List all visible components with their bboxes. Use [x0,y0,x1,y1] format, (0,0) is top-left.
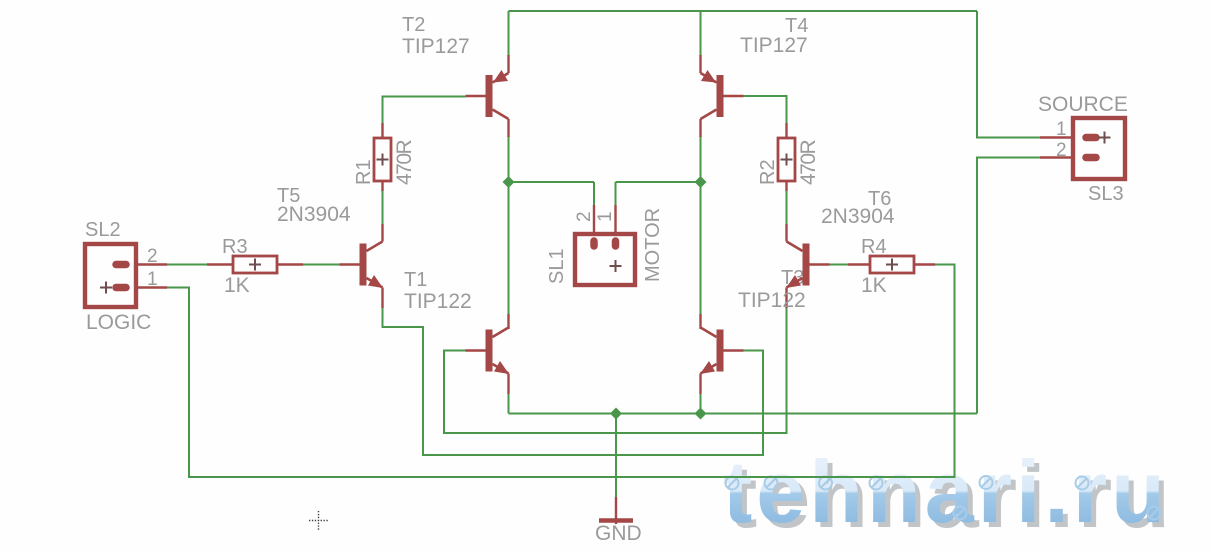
pin T1 collector [507,314,509,329]
svg-text:1: 1 [147,269,158,290]
label T1 name [404,269,427,291]
svg-text:TIP122: TIP122 [738,289,806,312]
svg-text:2: 2 [1056,140,1067,161]
label T4 name [785,15,808,37]
svg-text:SL1: SL1 [546,248,568,284]
svg-text:GND: GND [595,522,642,545]
pin GND stem [615,497,617,524]
pin T5 collector [381,224,383,242]
label SL3 pin1 number [1056,119,1067,140]
svg-text:TIP122: TIP122 [404,290,472,313]
pin SL2 pin2 lead [128,263,167,265]
wire GND stem [615,414,617,499]
label SL2 pin1 number [147,269,158,290]
connector SL1 MOTOR [575,234,635,285]
label T5 name [277,185,300,207]
label SL1 value MOTOR [642,208,664,282]
pin R2 bottom [785,181,787,191]
wire R2 bottom to T6 collector [786,190,788,225]
pin T4 emitter [699,55,701,73]
connector SL2 LOGIC [85,244,136,307]
wire motor pin1 drop [615,182,617,206]
transistor T5 2N3904 [340,242,384,289]
wire T5 emitter to T3 base [383,307,764,455]
pin R3 left [207,263,233,265]
label SL3 pin2 number [1056,140,1067,161]
label SL2 value LOGIC [86,311,151,334]
label T1 value TIP122 [404,290,472,313]
label SL2 name [85,219,121,241]
label SL1 name [546,248,568,284]
wire top V+ rail [509,10,978,12]
svg-text:2N3904: 2N3904 [277,203,351,226]
wire T4 collector riser [700,136,702,182]
svg-text:SL2: SL2 [85,219,121,241]
svg-text:MOTOR: MOTOR [642,208,664,282]
wire T3 emitter to rail [700,393,702,414]
svg-text:1K: 1K [861,274,887,297]
svg-text:2: 2 [147,246,158,267]
pin SL3 pin1 lead [1040,136,1089,138]
label R4 name [861,236,887,258]
transistor T1 TIP122 [466,328,510,375]
svg-text:1: 1 [1056,119,1067,140]
label T2 value TIP127 [402,35,470,58]
wire SL2 pin1 to R4 right [167,265,955,478]
label T6 value 2N3904 [821,205,895,228]
wire GND bottom rail [509,413,978,415]
resistor R1 470R [374,138,391,181]
svg-text:2N3904: 2N3904 [821,205,895,228]
svg-text:SL3: SL3 [1088,183,1124,205]
pin R1 top [381,123,383,138]
label SL3 name [1088,183,1124,205]
resistor R4 1K [870,256,914,273]
label T6 name [868,188,891,210]
transistor T2 TIP127 [466,70,509,119]
label R1 value 470R [393,139,416,185]
label R4 value 1K [861,274,887,297]
pin T6 collector [785,224,787,242]
wire SOURCE pin2 to GND rail [977,158,1040,414]
wire motor rail right [616,181,701,183]
pin SL1 pin2 lead [593,205,595,244]
wire T6 emitter to T1 base [444,307,787,433]
wire R1 top to T2 base [383,97,466,125]
junction node left bridge output [503,176,515,188]
wire T2 collector riser [508,136,510,182]
transistor T6 2N3904 [786,242,830,289]
wire T1 emitter to rail [508,393,510,414]
label SL3 value SOURCE [1038,93,1128,116]
resistor R3 1K [233,256,277,273]
svg-text:T1: T1 [404,269,427,291]
pin T4 collector [699,119,701,137]
svg-text:1K: 1K [224,274,250,297]
pin SL3 pin2 lead [1040,156,1089,158]
pin T2 emitter [507,55,509,73]
label R2 value 470R [797,139,820,185]
svg-text:R3: R3 [222,236,248,258]
svg-text:R4: R4 [861,236,887,258]
label R1 name [353,159,375,185]
svg-text:SOURCE: SOURCE [1038,93,1128,116]
label T3 value TIP122 [738,289,806,312]
pin T2 collector [507,119,509,137]
label R2 name [757,159,779,185]
svg-text:470R: 470R [393,139,416,185]
label R3 value 1K [224,274,250,297]
junction node GND at rail [610,408,622,420]
origin crosshair [309,511,328,530]
resistor R2 470R [778,138,795,181]
pin T3 emitter [699,374,701,395]
label T2 name [402,14,425,36]
svg-text:T2: T2 [402,14,425,36]
wire motor rail left [509,181,595,183]
label T3 name [781,267,804,289]
connector SL3 SOURCE [1073,118,1125,179]
label GND [595,522,642,545]
red pin stubs layer [128,55,1089,524]
pin R4 right [913,263,935,265]
pin R4 left [848,263,870,265]
transistor T4 TIP127 [701,70,744,119]
svg-text:470R: 470R [797,139,820,185]
pin SL1 pin1 lead [614,205,616,244]
transistor T3 TIP122 [700,328,744,375]
wire T4 base to R2 top [744,96,787,124]
label R3 name [222,236,248,258]
svg-text:tehnari.ru: tehnari.ru [723,442,1169,541]
pin R3 right [277,263,303,265]
ground GND symbol [599,518,633,522]
wire T1 collector riser [508,182,510,315]
label T4 value TIP127 [740,34,808,57]
wire motor pin2 drop [593,182,595,206]
wire T4 emitter riser [700,11,702,56]
wire T2 emitter riser [508,11,510,56]
wire T6 base to R4 [830,264,849,266]
pin T1 emitter [507,374,509,395]
label T5 value 2N3904 [277,203,351,226]
wires layer [167,11,1040,498]
pin R2 top [785,123,787,138]
pin R1 bottom [381,181,383,191]
pin T3 collector [699,314,701,329]
pin SL2 pin1 lead [128,286,167,288]
pin T6 emitter [785,288,787,309]
svg-text:R2: R2 [757,159,779,185]
svg-text:TIP127: TIP127 [402,35,470,58]
pin T5 emitter [381,288,383,309]
svg-text:R1: R1 [353,159,375,185]
junction node T3 emitter at rail [695,408,707,420]
label SL2 pin2 number [147,246,158,267]
svg-text:LOGIC: LOGIC [86,311,151,334]
label SL1 pin1 number [595,211,616,222]
wire R3 to T5 base [303,264,340,266]
svg-text:TIP127: TIP127 [740,34,808,57]
watermark tehnari.ru [723,442,1174,546]
svg-text:2: 2 [574,211,595,222]
label SL1 pin2 number [574,211,595,222]
wire SL2 pin2 to R3 [167,264,207,266]
wire R1 bottom to T5 collector [382,190,384,225]
junction node right bridge output [695,176,707,188]
svg-text:1: 1 [595,211,616,222]
wire T3 collector riser [700,182,702,315]
wire V+ to SOURCE pin1 [977,11,1040,138]
